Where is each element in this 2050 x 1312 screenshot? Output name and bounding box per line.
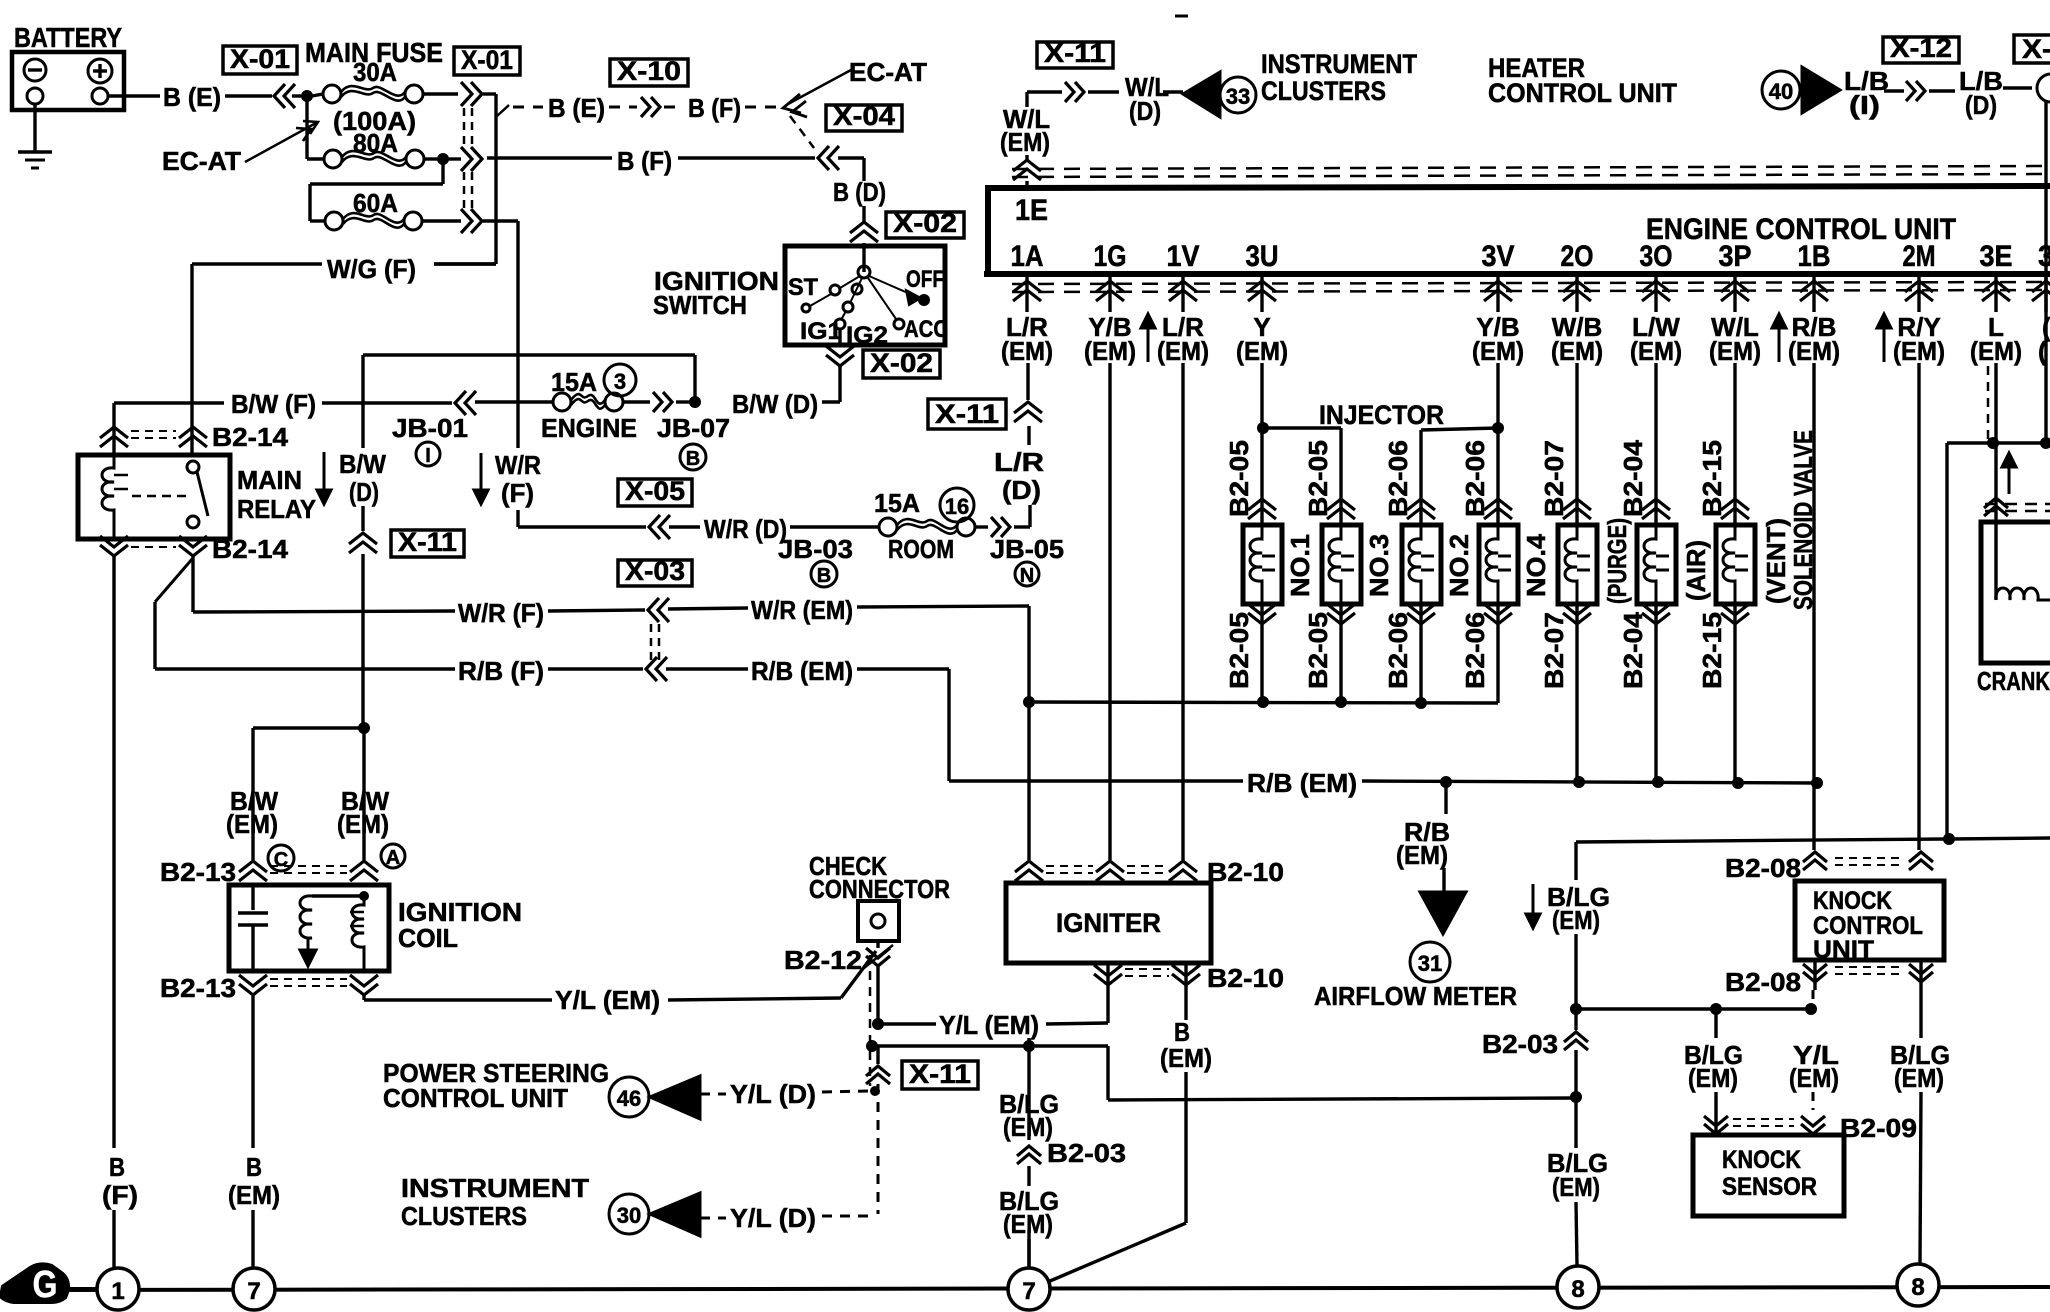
svg-text:X-02: X-02 (893, 208, 957, 238)
svg-text:7: 7 (1022, 1278, 1035, 1305)
knock control unit U3 (1795, 881, 1944, 960)
arrow EC-AT to fuse block (245, 123, 316, 162)
wire IG1 output (838, 329, 841, 345)
label W/R (F) drop with down arrow (480, 453, 483, 494)
svg-text:JB-07: JB-07 (657, 413, 730, 443)
svg-text:3U: 3U (1246, 240, 1279, 273)
connector chevrons B2-09 (1704, 1116, 1728, 1126)
svg-text:ACC: ACC (904, 316, 948, 343)
injector/solenoid NO.1 column (1260, 431, 1263, 525)
ignition coil T1 (229, 885, 389, 971)
svg-text:B2-04: B2-04 (1618, 439, 1648, 517)
connector chevrons B2-13 bottom (239, 975, 267, 986)
svg-text:B2-03: B2-03 (1047, 1138, 1126, 1168)
connector chevrons X-03 (648, 598, 659, 622)
svg-text:(EM): (EM) (1789, 1063, 1839, 1093)
svg-text:B2-08: B2-08 (1725, 853, 1801, 883)
svg-text:(EM): (EM) (1160, 1043, 1212, 1073)
wire B/LG to node 7 (1027, 1038, 1030, 1046)
wire B/W (D) up and over (693, 355, 696, 402)
svg-text:L/R: L/R (994, 447, 1044, 477)
svg-text:X-11: X-11 (935, 399, 999, 429)
svg-text:B (D): B (D) (833, 177, 886, 207)
svg-text:B: B (817, 565, 831, 587)
wire W/R feed to igniter (1027, 702, 1030, 860)
svg-text:CRANK: CRANK (1977, 666, 2050, 696)
svg-text:B: B (109, 1152, 125, 1182)
svg-text:(EM): (EM) (1688, 1063, 1738, 1093)
svg-text:G: G (33, 1264, 58, 1306)
svg-text:(EM): (EM) (228, 1180, 280, 1210)
svg-text:(PURGE): (PURGE) (1602, 518, 1632, 604)
connector chevrons B2-13 top (251, 786, 254, 860)
svg-text:(EM): (EM) (1001, 336, 1053, 366)
wire knock sensor B/LG pin (1714, 1009, 1717, 1038)
wire W/L (EM) to ECU pin 1E (1025, 92, 1028, 107)
svg-text:(EM): (EM) (1157, 336, 1209, 366)
wire R/B (EM) down (947, 669, 950, 781)
svg-text:B2-08: B2-08 (1725, 967, 1801, 997)
svg-text:B2-04: B2-04 (1618, 611, 1648, 689)
label X-11 top (1037, 42, 1113, 68)
svg-text:(EM): (EM) (1894, 1063, 1944, 1093)
label X-02 (886, 212, 964, 238)
svg-text:NO.4: NO.4 (1521, 533, 1551, 597)
svg-text:B/W (D): B/W (D) (732, 389, 818, 419)
svg-text:2O: 2O (1561, 240, 1594, 273)
svg-text:1A: 1A (1011, 240, 1044, 273)
svg-text:40: 40 (1769, 79, 1793, 104)
connector chevrons X-01 left (274, 84, 285, 108)
svg-text:ROOM: ROOM (888, 534, 954, 564)
svg-text:(EM): (EM) (1788, 336, 1840, 366)
wire R/B (EM) to airflow meter (1444, 782, 1447, 814)
svg-text:(D): (D) (1129, 96, 1161, 126)
svg-text:JB-05: JB-05 (990, 534, 1064, 564)
svg-text:N: N (1020, 565, 1034, 587)
wire knock Y/L pin (1812, 990, 1815, 1006)
svg-text:B2-12: B2-12 (784, 945, 862, 975)
svg-text:(EM): (EM) (1630, 336, 1682, 366)
wire Y/L (D) to power steering (822, 1091, 869, 1092)
wire 30A output to W/G (F) (483, 92, 496, 95)
wire relay switch output (191, 556, 194, 612)
svg-text:CONTROL UNIT: CONTROL UNIT (383, 1083, 568, 1113)
svg-text:INJECTOR: INJECTOR (1319, 400, 1444, 430)
connector chevron B2-12 (876, 941, 879, 948)
svg-text:B2-05: B2-05 (1224, 440, 1254, 517)
wire 60A feed (441, 159, 444, 184)
connector chevrons X-11 B/W (455, 391, 466, 415)
svg-text:1B: 1B (1798, 240, 1831, 273)
wire injector ground bus (1023, 696, 1035, 708)
svg-text:ENGINE: ENGINE (541, 413, 637, 443)
wire dashed to X-04 (790, 116, 814, 148)
svg-text:W/R (EM): W/R (EM) (751, 595, 853, 625)
arrow connector 30 instrument clusters (609, 1194, 649, 1234)
svg-text:KNOCK: KNOCK (1722, 1146, 1801, 1174)
svg-text:B2-07: B2-07 (1539, 440, 1569, 517)
wire check connector dashed to clusters (877, 1084, 880, 1214)
label X-03 (618, 560, 692, 586)
ground node 1 (97, 1268, 139, 1310)
connector chevrons X-04 (818, 146, 829, 170)
svg-text:IG2: IG2 (846, 322, 888, 349)
svg-text:1E: 1E (1015, 194, 1048, 227)
svg-text:IG1: IG1 (800, 318, 842, 345)
svg-text:X-05: X-05 (625, 476, 685, 506)
svg-text:Y/L (D): Y/L (D) (730, 1203, 816, 1233)
arrow connector 33 instrument clusters (1183, 72, 1220, 117)
connector chevrons R/B X-03 (646, 657, 657, 681)
crank angle sensor box (1981, 522, 2050, 663)
ECU pin connector chevrons (1025, 274, 1028, 312)
svg-text:(EM): (EM) (1084, 336, 1136, 366)
svg-text:B/W: B/W (339, 449, 386, 479)
wire ECU 1V to igniter (1181, 363, 1184, 860)
svg-text:X-02: X-02 (870, 348, 933, 378)
label X-01 right (454, 47, 520, 75)
svg-text:W/R (F): W/R (F) (458, 598, 544, 628)
connector chevrons B2-08 bottom (1813, 960, 1816, 990)
node Y/L (D) tap (870, 1086, 880, 1096)
node Y/L junction 1 (872, 1018, 884, 1030)
svg-text:X-10: X-10 (617, 56, 681, 86)
harness dashed boundary below ECU (1012, 282, 2050, 284)
wire branch to R/B (F) (155, 558, 193, 602)
wire W/R (EM) down to igniter feed (1027, 606, 1030, 700)
label X-11 mid-left (391, 530, 464, 557)
svg-text:X-11: X-11 (1044, 38, 1106, 68)
svg-text:(EM): (EM) (1472, 336, 1524, 366)
svg-text:C: C (274, 849, 288, 871)
connector chevrons B2-14 top (100, 427, 128, 438)
arrow EC-AT right pointer (783, 94, 801, 113)
svg-text:3P: 3P (1719, 240, 1752, 273)
wire crank feed horizontal (1947, 441, 2050, 444)
svg-text:16: 16 (945, 494, 969, 519)
wire check connector dashed companion (869, 955, 872, 1086)
ground node 8 left (1557, 1266, 1599, 1308)
svg-text:(F): (F) (102, 1180, 138, 1210)
svg-text:1G: 1G (1094, 240, 1127, 273)
svg-text:3: 3 (614, 369, 626, 394)
crank sensor coil (1994, 522, 1997, 600)
wire ECU 2M R/Y down to knock (1917, 363, 1920, 850)
svg-text:2M: 2M (1903, 240, 1936, 273)
connector chevrons X-01 80A out (461, 147, 472, 171)
up arrow crank (2008, 463, 2011, 494)
svg-text:B2-05: B2-05 (1303, 440, 1333, 517)
arrow connector 31 airflow meter (1420, 892, 1466, 934)
wire relay coil to ground B (F) (112, 556, 115, 1148)
wire R/B (EM) bus (949, 779, 1243, 782)
svg-text:8: 8 (1571, 1276, 1584, 1303)
svg-text:(EM): (EM) (1552, 1172, 1600, 1202)
svg-text:W/R: W/R (495, 450, 541, 480)
node B/W split to coil (358, 722, 370, 734)
connector chevrons B2-10 top (1015, 861, 1043, 872)
svg-text:X-01: X-01 (230, 44, 290, 74)
connector chevrons JB-07 (653, 392, 662, 412)
wire B (D) down to ignition switch (862, 158, 865, 181)
svg-text:3E: 3E (1980, 240, 2013, 273)
label A circle (381, 844, 405, 868)
node B/LG junction bottom (1570, 1091, 1582, 1103)
svg-text:EC-AT: EC-AT (849, 57, 927, 87)
svg-text:W/R (D): W/R (D) (704, 514, 787, 544)
wire B/W (D) label and down arrow (323, 452, 326, 494)
svg-text:X-01: X-01 (461, 45, 513, 75)
up arrow at pin 1V (1147, 324, 1150, 362)
svg-text:B/W (F): B/W (F) (231, 389, 316, 419)
connector chevron X-11 check (876, 1046, 879, 1064)
wire B/LG (EM) junction column (1576, 839, 1946, 842)
arrow connector 40 heater (1762, 71, 1800, 109)
svg-text:B (F): B (F) (688, 93, 741, 123)
label X-partial right edge (2014, 35, 2050, 63)
svg-text:B2-06: B2-06 (1383, 440, 1413, 517)
wire relay switch feed (190, 403, 193, 455)
svg-text:COIL: COIL (398, 923, 458, 953)
svg-text:B2-15: B2-15 (1697, 612, 1727, 689)
connector chevron B2-03 knock (1574, 1009, 1577, 1030)
injector/solenoid (AIR) column (1654, 363, 1657, 525)
connector chevrons B2-10 bottom (1106, 963, 1109, 994)
svg-text:B2-06: B2-06 (1383, 612, 1413, 689)
connector X-03 dashed boundary (650, 624, 653, 660)
svg-text:Y/L (D): Y/L (D) (730, 1079, 816, 1109)
svg-text:(F): (F) (501, 478, 534, 508)
ignition coil primary winding (359, 891, 369, 901)
svg-text:B (E): B (E) (163, 82, 221, 112)
ground node 8 right (1897, 1264, 1939, 1306)
svg-text:3V: 3V (1482, 240, 1515, 273)
svg-text:R/B (EM): R/B (EM) (1247, 768, 1357, 798)
wire B/LG horizontal to knock pins (1576, 1007, 1806, 1010)
label X-04 (826, 105, 902, 131)
svg-text:ST: ST (788, 274, 818, 301)
wire ECU 1G to igniter (1108, 363, 1111, 860)
knock sensor B1 (1693, 1135, 1844, 1216)
wire branch to capacitor side (253, 726, 364, 729)
wire B/W (F) (114, 401, 224, 404)
svg-text:3: 3 (2038, 240, 2050, 273)
svg-text:(EM): (EM) (1003, 1209, 1053, 1239)
svg-text:X-03: X-03 (625, 556, 685, 586)
svg-text:(D): (D) (349, 477, 379, 507)
svg-text:INSTRUMENT: INSTRUMENT (401, 1173, 589, 1203)
svg-text:KNOCK: KNOCK (1813, 887, 1892, 915)
ground symbol G car (0, 1263, 69, 1303)
svg-text:B2-15: B2-15 (1697, 440, 1727, 517)
svg-text:X-11: X-11 (909, 1059, 971, 1089)
svg-text:X-: X- (2022, 34, 2050, 64)
svg-text:B2-06: B2-06 (1460, 440, 1490, 517)
engine control unit U1 (988, 186, 2050, 274)
wire ECU 1B R/B down to knock (1812, 363, 1815, 850)
wire 60A output down (483, 219, 518, 222)
svg-text:B2-05: B2-05 (1303, 612, 1333, 689)
label X-12 (1883, 37, 1959, 63)
svg-text:B2-03: B2-03 (1482, 1029, 1558, 1059)
node B/W (D) junction (689, 396, 701, 408)
svg-text:OFF: OFF (906, 266, 944, 293)
wire W/R (F) to W/R (EM) (193, 611, 455, 612)
svg-text:SWITCH: SWITCH (653, 290, 747, 320)
ground node 7 left (233, 1268, 275, 1310)
svg-text:(D): (D) (1002, 475, 1041, 505)
connector chevrons crank (1984, 498, 2008, 508)
arrow connector 46 power steering (609, 1077, 649, 1117)
svg-text:R/B (EM): R/B (EM) (751, 656, 853, 686)
svg-text:(I): (I) (1849, 90, 1880, 120)
svg-text:(AIR): (AIR) (1681, 540, 1711, 601)
connector circle right edge (2037, 74, 2050, 102)
svg-text:RELAY: RELAY (237, 494, 316, 524)
node junction after B (E) (301, 90, 313, 102)
wire coil to Y/L (EM) (362, 995, 365, 1000)
svg-text:B2-10: B2-10 (1207, 857, 1284, 887)
wire B/LG to ground 8 (1574, 1097, 1577, 1148)
stray mark top (1175, 15, 1188, 18)
svg-text:UNIT: UNIT (1813, 936, 1874, 964)
ignition switch SW1 (785, 246, 945, 345)
svg-text:INSTRUMENT: INSTRUMENT (1261, 49, 1417, 79)
injector/solenoid NO.4 column (1496, 431, 1499, 525)
svg-text:B (F): B (F) (617, 146, 672, 176)
svg-text:B (E): B (E) (548, 93, 605, 123)
node after 80A fuse (437, 153, 449, 165)
svg-text:(D): (D) (1965, 90, 1997, 120)
harness dashed boundary crank (1985, 503, 2050, 506)
svg-text:1: 1 (111, 1278, 124, 1305)
label X-11 room (928, 399, 1006, 429)
svg-text:B2-05: B2-05 (1224, 612, 1254, 689)
svg-text:31: 31 (1418, 951, 1442, 976)
connector chevrons JB-05 (991, 517, 1000, 537)
connector chevrons X-01 30A out (461, 82, 472, 106)
check connector box (858, 901, 899, 941)
svg-text:CLUSTERS: CLUSTERS (1261, 76, 1386, 106)
svg-text:(EM): (EM) (1000, 127, 1050, 157)
svg-text:X-04: X-04 (833, 101, 895, 131)
svg-text:IGNITER: IGNITER (1056, 908, 1161, 938)
ground below battery (33, 104, 36, 151)
wire knock unit right B/LG to ground 8 (1919, 990, 1922, 1038)
svg-text:R/B (F): R/B (F) (458, 656, 544, 686)
svg-text:X-12: X-12 (1890, 33, 1952, 63)
svg-text:B2-13: B2-13 (160, 973, 236, 1003)
wire L (EM) from ECU 3E (1994, 363, 1997, 522)
svg-text:BATTERY: BATTERY (14, 22, 122, 53)
node Y/L junction 2 (866, 1040, 878, 1052)
svg-text:X-11: X-11 (398, 527, 457, 557)
svg-text:AIRFLOW METER: AIRFLOW METER (1314, 981, 1517, 1011)
wire igniter Y/L pin (1106, 994, 1109, 1023)
svg-text:B: B (246, 1152, 262, 1182)
injector/solenoid (PURGE) column (1575, 363, 1578, 525)
wire L/R (D) up to ECU pin 1A (1028, 505, 1031, 527)
wire right column down (1945, 443, 1948, 839)
svg-text:(EM): (EM) (1003, 1112, 1053, 1142)
svg-text:B2-09: B2-09 (1840, 1113, 1917, 1143)
svg-text:Y/L (EM): Y/L (EM) (939, 1010, 1039, 1040)
node B/LG junction top (1570, 1003, 1582, 1015)
svg-text:B2-10: B2-10 (1207, 963, 1284, 993)
wire B (E) from battery (108, 94, 160, 97)
svg-text:NO.3: NO.3 (1364, 534, 1394, 597)
label X-11 check (902, 1061, 978, 1089)
svg-text:SENSOR: SENSOR (1722, 1173, 1817, 1201)
svg-text:B2-06: B2-06 (1460, 612, 1490, 689)
label B/LG (EM) down arrow (1532, 884, 1535, 918)
wire injector top bus 3V (1496, 363, 1499, 425)
svg-text:W/G (F): W/G (F) (327, 254, 416, 284)
wire B (E) dashed to X-10 (497, 105, 509, 116)
svg-text:NO.1: NO.1 (1285, 534, 1315, 597)
up arrow at pin 2M (1883, 324, 1886, 362)
svg-text:MAIN: MAIN (237, 465, 302, 495)
svg-text:(EM): (EM) (1396, 840, 1448, 870)
ignition coil secondary winding (352, 896, 364, 971)
svg-text:B2-07: B2-07 (1539, 612, 1569, 689)
svg-text:B: B (686, 448, 700, 470)
label C circle (268, 845, 294, 871)
svg-text:A: A (386, 847, 400, 869)
svg-text:NO.2: NO.2 (1444, 534, 1474, 597)
svg-text:7: 7 (247, 1278, 260, 1305)
svg-text:(EM): (EM) (1552, 905, 1600, 935)
svg-text:CLUSTERS: CLUSTERS (401, 1201, 527, 1231)
label X-10 (610, 59, 688, 86)
wire W/R (D) (518, 525, 646, 528)
svg-text:8: 8 (1911, 1274, 1924, 1301)
label X-05 (618, 479, 692, 506)
svg-text:33: 33 (1226, 84, 1250, 109)
svg-text:15A: 15A (874, 488, 920, 518)
igniter U2 (1006, 883, 1211, 963)
svg-text:30: 30 (617, 1203, 641, 1228)
wire R/B (F) to R/B (EM) (155, 667, 455, 670)
svg-text:(VENT): (VENT) (1761, 518, 1791, 604)
wire W/L (D) to instrument clusters (1027, 90, 1062, 93)
svg-text:JB-01: JB-01 (392, 413, 468, 443)
svg-text:1V: 1V (1167, 240, 1200, 273)
svg-text:B2-14: B2-14 (212, 534, 289, 564)
svg-text:3O: 3O (1640, 240, 1673, 273)
wire injector top bus 3U (1260, 363, 1263, 425)
svg-text:(EM): (EM) (1551, 336, 1603, 366)
label X-01 left (223, 46, 297, 74)
svg-text:(EM): (EM) (1893, 336, 1945, 366)
harness dashed boundary top (1012, 166, 2050, 169)
main relay K1 (78, 455, 230, 539)
up arrow at pin 1B (1778, 324, 1781, 362)
svg-text:CONTROL UNIT: CONTROL UNIT (1488, 78, 1677, 108)
wire right edge down (2044, 102, 2047, 443)
svg-text:(EM): (EM) (1970, 336, 2022, 366)
connector X-01 dashed boundary (463, 108, 466, 148)
battery BAT1 (12, 52, 124, 110)
connector chevrons X-01 60A out (461, 209, 472, 233)
connector arrow X-10 (641, 97, 650, 117)
svg-text:(EM): (EM) (1709, 336, 1761, 366)
label X-02 lower (863, 350, 940, 378)
svg-text:B2-13: B2-13 (160, 857, 236, 887)
svg-text:(EM): (EM) (1236, 336, 1288, 366)
connector chevrons B2-08 top (1803, 852, 1827, 862)
